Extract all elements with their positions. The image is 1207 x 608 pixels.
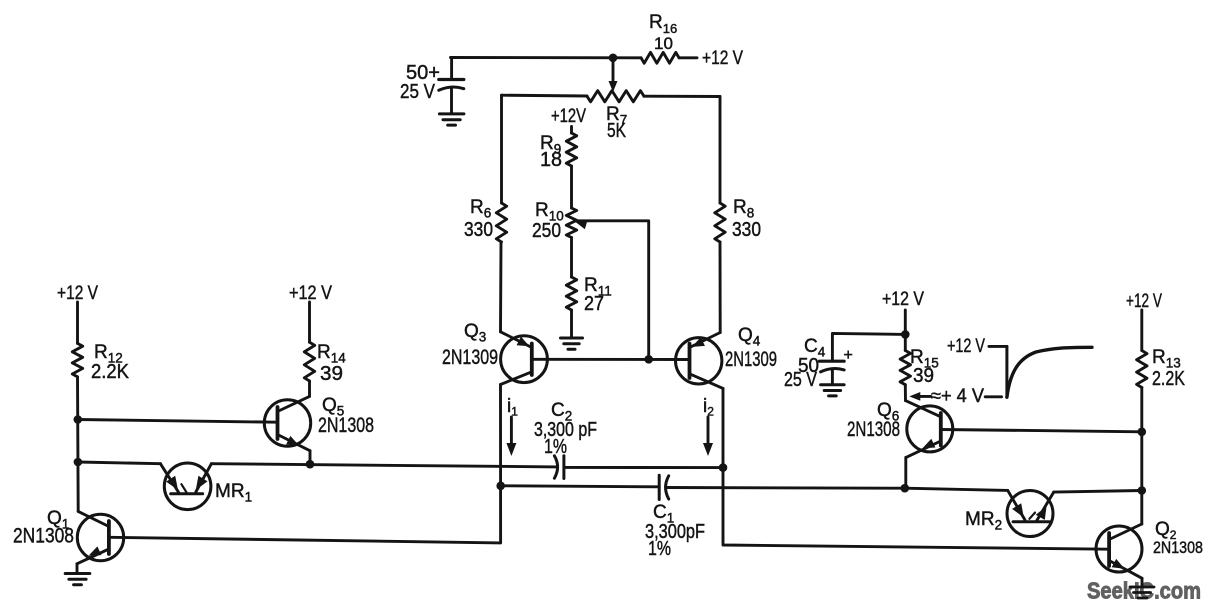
wire R12 down to Q1 collector, with junctions bbox=[76, 377, 80, 512]
junction node Q6 base on R13 line bbox=[1138, 428, 1147, 437]
resistor R13 bbox=[1137, 351, 1147, 388]
waveform curve bbox=[989, 345, 1007, 348]
svg-text:2N1308: 2N1308 bbox=[13, 524, 74, 548]
svg-text:250: 250 bbox=[532, 220, 561, 242]
svg-text:1%: 1% bbox=[544, 436, 567, 458]
wire MR2 row: Q6 emitter junction to MR2 left lead bbox=[905, 488, 1008, 490]
svg-text:25 V: 25 V bbox=[784, 369, 818, 391]
resistor R14 bbox=[304, 342, 314, 381]
wire right branch from R7 row down to R8 bbox=[719, 97, 722, 204]
wire Q3 collector down to Q1 base corner bbox=[110, 385, 501, 543]
svg-text:+12 V: +12 V bbox=[1126, 291, 1162, 312]
transistor Q2 2N1308 bbox=[1096, 524, 1142, 578]
svg-text:2N1308: 2N1308 bbox=[318, 413, 374, 437]
svg-text:+12 V: +12 V bbox=[702, 48, 743, 69]
wire +12V to R13 bbox=[1140, 310, 1143, 351]
wire MR1 row: node to MR1 left lead bbox=[78, 462, 160, 464]
capacitor C4 plates bbox=[820, 360, 845, 363]
wire C1 right plate to Q6 emitter junction bbox=[666, 486, 905, 490]
transistor Q5 2N1308 bbox=[264, 396, 310, 450]
wire C1 left: junction to left plate bbox=[501, 486, 660, 487]
svg-text:1%: 1% bbox=[648, 538, 671, 560]
svg-text:39: 39 bbox=[320, 363, 343, 385]
junction node Q6 emitter on C1 wire bbox=[901, 484, 910, 493]
junction node Q5 base tap bbox=[74, 415, 83, 424]
wire R6 to Q3 emitter bbox=[499, 242, 502, 332]
ground below C4 bbox=[821, 383, 845, 386]
svg-text:39: 39 bbox=[913, 365, 934, 387]
capacitor C(50uF 25V) top plate and body bbox=[450, 58, 453, 80]
svg-text:≈+ 4 V: ≈+ 4 V bbox=[931, 386, 984, 407]
current arrow i2 bbox=[707, 417, 710, 446]
svg-text:27: 27 bbox=[584, 293, 604, 315]
wire +12V to R14 bbox=[308, 302, 311, 342]
wire +12V to R15 node bbox=[904, 310, 907, 351]
ground below Q1 bbox=[65, 572, 90, 575]
wire R9 to R10 bbox=[570, 166, 573, 208]
transistor Q1 2N1308 bbox=[77, 511, 124, 563]
wire R11 to ground bbox=[570, 310, 573, 338]
resistor R12 bbox=[72, 343, 82, 376]
wire MR2 right lead to R13 line junction bbox=[1054, 491, 1142, 493]
transistor Q4 2N1309 bbox=[676, 333, 724, 389]
resistor R6 bbox=[496, 203, 506, 242]
svg-text:5K: 5K bbox=[607, 120, 627, 142]
junction node MR1 wire tap bbox=[74, 458, 83, 467]
transistor Q3 2N1309 bbox=[501, 332, 548, 385]
wire Q6 emitter down to C1 wire bbox=[904, 457, 907, 488]
wire base row Q3 to Q4 bbox=[532, 358, 690, 361]
wire R13 down to Q2 collector with junctions bbox=[1140, 388, 1143, 525]
potentiometer R10 bbox=[566, 208, 576, 238]
svg-text:330: 330 bbox=[464, 219, 493, 241]
wire R15 to Q6 collector bbox=[904, 385, 907, 401]
svg-text:25 V: 25 V bbox=[400, 81, 436, 103]
ground below Q2 bbox=[1130, 586, 1154, 589]
svg-text:+: + bbox=[844, 347, 853, 364]
wire left branch from R7 row down to R6 bbox=[500, 95, 503, 203]
wire Q6 base row to R13 line bbox=[941, 430, 1142, 432]
wire Q4 collector down to Q2 base corner bbox=[723, 388, 1109, 549]
potentiometer R7 bbox=[587, 91, 644, 102]
wire R14 to Q5 collector bbox=[308, 381, 311, 396]
svg-text:+12 V: +12 V bbox=[882, 289, 924, 310]
svg-text:2N1309: 2N1309 bbox=[442, 345, 498, 369]
ground below R11 bbox=[561, 337, 583, 340]
svg-text:2.2K: 2.2K bbox=[1152, 368, 1186, 390]
annotation arrow approx +4 V pointing at Q6 collector bbox=[914, 395, 932, 398]
wire R8 to Q4 emitter bbox=[719, 242, 722, 333]
wire Q5 base line bbox=[78, 420, 278, 423]
svg-text:18: 18 bbox=[540, 149, 562, 171]
svg-text:SeekIC.com: SeekIC.com bbox=[1087, 578, 1201, 604]
svg-text:2N1309: 2N1309 bbox=[725, 347, 777, 371]
svg-text:10: 10 bbox=[654, 34, 673, 53]
capacitor C2 plates bbox=[554, 456, 557, 478]
junction node Q5 emitter on MR1 wire bbox=[306, 460, 315, 469]
svg-text:2N1308: 2N1308 bbox=[847, 417, 900, 441]
svg-text:+12 V: +12 V bbox=[289, 283, 332, 304]
capacitor C1 plates bbox=[658, 475, 661, 499]
junction node C1 left on Q3 collector line bbox=[496, 482, 505, 491]
svg-text:+12 V: +12 V bbox=[947, 336, 985, 357]
wire Q1 emitter to ground bbox=[76, 564, 79, 573]
ground below 50/25V capacitor bbox=[439, 112, 464, 115]
R7 wiper arrow from top rail node bbox=[612, 62, 615, 85]
wire MR1 right lead to C2 left plate bbox=[211, 464, 557, 467]
junction node on top rail bbox=[609, 54, 618, 63]
wire Q5 emitter down to MR1 wire bbox=[309, 451, 312, 465]
diode MR2 bbox=[1007, 490, 1054, 536]
resistor R15 bbox=[900, 351, 910, 385]
svg-text:+12V: +12V bbox=[551, 106, 586, 127]
wire +12V to R12 bbox=[76, 302, 79, 343]
R10 wiper tap arrow and wire to base node bbox=[576, 221, 588, 230]
resistor R16 bbox=[641, 52, 679, 63]
resistor R11 bbox=[566, 277, 576, 310]
resistor R8 bbox=[715, 203, 725, 242]
junction node C2 right on Q4 collector line bbox=[719, 463, 728, 472]
junction node base row bbox=[644, 355, 653, 364]
transistor Q6 2N1308 bbox=[906, 401, 953, 458]
junction node MR2 wire on R13 line bbox=[1138, 486, 1147, 495]
svg-text:2N1308: 2N1308 bbox=[1153, 539, 1203, 557]
resistor R9 bbox=[570, 127, 573, 134]
svg-text:2.2K: 2.2K bbox=[91, 361, 130, 383]
wire R7 row (left corner to zigzag to right corner) bbox=[502, 94, 588, 98]
diode MR1 bbox=[160, 463, 211, 510]
wire Q2 emitter to ground bbox=[1141, 578, 1144, 586]
current arrow i1 bbox=[510, 417, 513, 446]
wire R10 to R11 bbox=[570, 238, 573, 278]
wire C4 row bbox=[832, 333, 905, 361]
wire top rail from C(50/25V) to R16 bbox=[451, 56, 642, 59]
svg-text:330: 330 bbox=[732, 219, 761, 241]
junction node C4 tap bbox=[901, 330, 910, 339]
wire C2 right plate to Q4 collector junction bbox=[565, 466, 724, 469]
